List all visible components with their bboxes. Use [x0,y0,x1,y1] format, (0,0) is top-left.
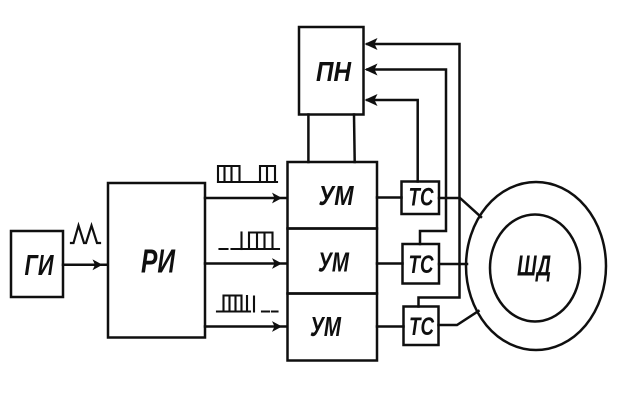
arrowhead into УМ3 [272,321,282,332]
arrowhead into ПН middle [365,64,378,76]
svg-text:ГИ: ГИ [25,250,55,282]
svg-text:ТС: ТС [409,184,435,212]
motor ШД inner circle [490,215,580,322]
block ТС3 (current sensor 3) [404,307,439,346]
svg-text:УМ: УМ [318,247,349,278]
feedback wire ТС2 to ПН (middle arrow) [368,70,447,245]
wire ТС1 to motor [439,198,481,217]
svg-text:УМ: УМ [319,180,355,211]
wire РИ to УМ2 [205,262,287,265]
feedback wire ТС1 to ПН (bottom arrow) [368,100,418,182]
waveform: ГИ output (two triangular pulses) [71,226,100,244]
wire ТС2 to motor [439,263,467,266]
wire ГИ to РИ [63,264,107,267]
block РИ (pulse distributor) [108,183,205,338]
block ТС1 (current sensor 1) [402,182,440,215]
power bus ПН to УМ1 (two vertical lines) [307,115,310,163]
wire УМ3 to ТС3 [377,325,404,328]
waveform channel 2 (low dashes then pulse group) [220,233,280,250]
block ПН (power supply) [299,27,364,115]
arrowhead into РИ [93,259,103,270]
wire РИ to УМ1 [205,197,287,200]
block УМ2 (power amplifier 2) [288,229,378,294]
svg-text:ТС: ТС [409,313,435,341]
feedback wire ТС3 to ПН (top arrow) [368,44,460,307]
block ТС2 (current sensor 2) [403,244,440,284]
waveform channel 3 (pulse group then low dashes) [217,296,278,312]
svg-text:РИ: РИ [141,243,176,280]
wire ТС3 to motor [439,311,479,325]
arrowhead into ПН top [365,38,378,50]
block УМ3 (power amplifier 3) [288,294,378,361]
waveform channel 1 (two pulse groups) [218,166,277,182]
svg-text:ПН: ПН [316,56,352,87]
block ГИ (pulse generator) [11,231,63,297]
motor ШД outer circle [466,182,606,350]
wire УМ2 to ТС2 [377,262,403,265]
svg-text:ТС: ТС [409,251,435,279]
wire УМ1 to ТС1 [377,196,402,199]
arrowhead into УМ2 [272,258,282,269]
svg-text:УМ: УМ [310,311,341,342]
arrowhead into ПН bottom [365,94,378,106]
block УМ1 (power amplifier 1) [288,162,378,229]
svg-text:ШД: ШД [517,251,551,283]
wire РИ to УМ3 [205,325,287,328]
arrowhead into УМ1 [272,193,282,204]
